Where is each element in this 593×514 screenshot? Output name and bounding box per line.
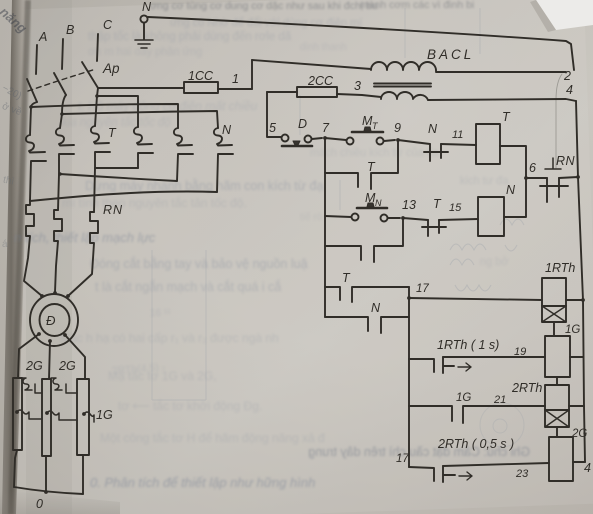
phase B lead [62,39,63,69]
fuse 2CC [297,87,337,97]
junction node 17 [407,296,411,300]
junction node 7 [323,136,327,140]
breaker blade B [54,73,66,95]
start button MN bridge [357,207,387,210]
control feed riser node 5 [267,92,281,137]
timed contact 2RTh row [409,466,455,482]
junction pole B [60,112,64,116]
svg-text:15: 15 [449,202,462,214]
junction pole C [95,94,99,98]
RN contact wire right [559,177,578,178]
wire node17 to 1RTh coil [409,298,542,300]
junction pole A [29,105,33,109]
svg-text:1CC: 1CC [188,69,214,83]
rotor lead right [65,335,85,379]
wire MN to node 13 [388,217,400,219]
motor D inner circle [40,304,70,336]
RN reset mark [545,158,561,169]
svg-text:17: 17 [396,453,409,465]
1RTh timer box [542,306,566,322]
timed contact 2RTh arrow [459,472,472,480]
BACL secondary winding [381,92,428,100]
svg-text:N: N [142,0,152,14]
faint bleed shapes [152,8,524,447]
motor D outer circle [30,294,78,346]
stop button D plunger [293,141,300,145]
wire node13 to T NC [403,218,428,220]
wire BACL primary to node 2 [436,71,566,73]
breaker blade A [27,79,37,102]
1RTh timer box cross [542,306,566,322]
svg-text:11: 11 [452,129,463,141]
T main contact col 95 [91,126,110,212]
2RTh timer box [545,410,569,427]
N aux contact row 17 [325,317,409,333]
coil 2G [549,437,573,481]
svg-text:T: T [342,271,351,285]
bottom bus node 0 [14,487,83,494]
svg-text:Đ: Đ [46,313,56,328]
2G contact 1 [22,378,42,393]
resistor bottom lead 1 [14,450,17,487]
junction node 13 [401,216,405,220]
coil 2RTh [545,385,569,410]
resistor R3 [77,379,89,455]
svg-text:RN: RN [103,203,123,217]
motor stator junction left [40,294,44,298]
svg-text:N: N [371,301,381,315]
svg-text:5: 5 [269,121,276,135]
NC contact T stubs [428,220,439,236]
wire 2CC to node 3 [337,94,381,97]
tie wire col218 to col30 [30,191,217,201]
BACL primary winding [371,62,436,71]
timed contact 1RTh row [409,357,454,373]
start button MT terminal 1 [347,138,354,145]
2RTh timer box cross [545,410,569,427]
svg-text:6: 6 [529,161,536,175]
N main contact col 218 [214,128,233,192]
1G contact row [409,406,545,423]
svg-text:2RTh: 2RTh [511,381,542,395]
2G contact 2 [51,378,77,393]
junction right rail RN [576,175,580,179]
wire pole B down [60,95,66,128]
timed contact arrow [458,363,471,371]
start button MN terminal 1 [352,214,359,221]
svg-text:1G: 1G [96,408,113,422]
1G tap junction 1 [15,410,19,414]
junction tie59 [58,172,62,176]
faint wire 2 drop [556,74,562,168]
svg-text:2CC: 2CC [307,74,334,88]
svg-text:1G: 1G [565,324,580,336]
NC contact N bar [424,151,448,153]
wire D to node 7 [312,138,322,139]
wire 1G coil to rail [570,356,583,358]
link 1RTh to 1G coil [553,322,555,336]
svg-text:1G: 1G [456,392,471,404]
svg-text:17: 17 [416,283,429,295]
start button MN plunger [367,203,374,207]
right rail from 4 [576,101,585,462]
rotor junction left [37,332,41,336]
MN row wire [325,216,351,217]
svg-text:1RTh ( 1 s): 1RTh ( 1 s) [437,338,499,352]
breaker Ap dashed linkage [28,69,96,91]
RN NC contact stubs [547,178,559,202]
junction rail 1RTh [581,298,585,302]
wire 2G coil to node 4 [573,461,585,463]
junction node 6 [524,176,528,180]
svg-text:N: N [428,122,438,136]
wire to 1G coil [443,356,545,358]
resistor bottom lead 3 [82,455,84,494]
T main contact col 59 [56,128,74,210]
svg-text:C: C [103,18,113,32]
1G contact 1 [17,410,42,419]
N aux contact parallel MN [325,218,403,262]
wire fuse to riser node 1 [218,88,252,90]
resistor R1 [13,378,22,450]
feed wire pole B to col 218 [62,111,218,128]
svg-text:21: 21 [493,394,506,406]
svg-text:Ap: Ap [102,61,120,76]
motor stator junction right [66,294,70,298]
T aux contact parallel MT [325,138,398,189]
T aux contact row 17 [325,287,409,302]
start button MT terminal 2 [377,138,384,145]
link 1G to 2RTh [556,377,558,385]
svg-text:N: N [375,198,382,208]
stop button D terminal 2 [305,136,312,143]
junction node 9 [396,138,400,142]
wire 2RTh to rail [569,405,584,407]
node 17 rail [408,287,410,467]
feed wire pole C to col 138 [97,96,138,127]
svg-text:1: 1 [232,72,239,86]
svg-text:T: T [372,121,379,131]
phase A lead [36,45,37,74]
resistor R2 [42,379,51,456]
book spine shadow left [0,0,32,514]
coil 1G [545,336,570,377]
svg-text:BACL: BACL [427,47,474,62]
junction node 0 [44,490,48,494]
coil T [476,124,500,164]
svg-text:T: T [108,126,117,140]
left rail down [324,173,326,317]
svg-text:3: 3 [354,79,361,93]
wire N contact to T coil [441,144,476,145]
neutral top wire [148,17,574,70]
wire T NC to N coil [439,219,478,220]
riser to top line [251,60,253,89]
svg-text:4: 4 [566,83,573,97]
heater RN phase 2 [54,210,62,292]
svg-text:N: N [222,123,232,137]
svg-text:23: 23 [515,468,529,480]
link 2RTh to 2G coil [556,427,558,437]
feed wire pole A to col 178 [31,104,178,128]
page corner top right [26,0,72,514]
svg-text:2G: 2G [58,359,76,373]
wire node7 to MT [325,138,346,140]
svg-text:7: 7 [322,121,330,135]
svg-text:T: T [367,160,376,174]
BACL core bars [374,84,431,87]
top line to BACL [252,60,371,69]
rotor junction right [63,333,67,337]
svg-text:RN: RN [556,154,576,168]
wire MT to node 9 [384,140,395,141]
svg-text:0: 0 [36,497,43,511]
fuse 1CC [184,82,218,93]
wire T coil to node 6 [500,146,526,178]
RN NC contact wire left [526,177,547,179]
wire secondary to node 4 [428,99,576,101]
svg-text:13: 13 [402,198,416,212]
coil 1RTh [542,278,566,306]
start button MT plunger [364,127,371,131]
N main contact col 138 [134,127,153,168]
motor stator junction mid [53,291,57,295]
svg-text:B: B [66,23,74,37]
rotor junction mid [48,339,52,343]
ground bars [135,40,153,48]
heater RN phase 3 [68,212,98,296]
resistor bottom lead 2 [45,456,47,492]
1G contact 2 [47,411,77,420]
wire pole A down [30,102,37,135]
tie wire col138 to col95 [95,167,138,169]
RN NC contact bar [540,185,568,187]
svg-text:D: D [298,117,307,131]
N main contact col 178 [174,128,193,181]
rotor lead mid [49,341,50,379]
coil N [478,197,504,236]
svg-text:2RTh ( 0,5 s ): 2RTh ( 0,5 s ) [437,437,514,451]
svg-text:2G: 2G [25,359,43,373]
start button MT bridge [352,131,383,134]
heater RN phase 1 [24,200,42,296]
svg-text:T: T [502,110,511,124]
wire node9 to N contact [398,140,430,144]
svg-text:9: 9 [394,121,401,135]
stop button D terminal 1 [282,135,289,142]
wire pole C down [95,88,98,126]
svg-text:T: T [433,197,442,211]
start button MN terminal 2 [381,215,388,222]
breaker blade C [82,62,98,88]
svg-text:A: A [38,30,47,44]
svg-text:1RTh: 1RTh [545,261,575,275]
svg-text:N: N [506,183,516,197]
svg-text:4: 4 [584,461,591,475]
tie wire col178 to col59 [60,174,177,181]
1G tap junction 3 [82,412,86,416]
ground stem [143,23,145,39]
1G contact 3 [84,412,94,422]
wire N coil to node 6 [504,178,526,217]
1G tap junction 2 [45,411,49,415]
T main contact col 30 [26,135,46,200]
wire 1RTh to right rail [566,299,583,301]
wire to 2G coil [443,463,549,466]
phase C lead [97,34,98,61]
rotor lead left [18,334,39,378]
wire to fuse 2CC [267,91,297,93]
NC contact T bar [422,226,446,228]
NC contact N stubs [430,144,441,161]
wire C pivot to fuse [98,87,184,89]
stop button D bridge [282,145,312,148]
neutral terminal N [140,15,147,22]
